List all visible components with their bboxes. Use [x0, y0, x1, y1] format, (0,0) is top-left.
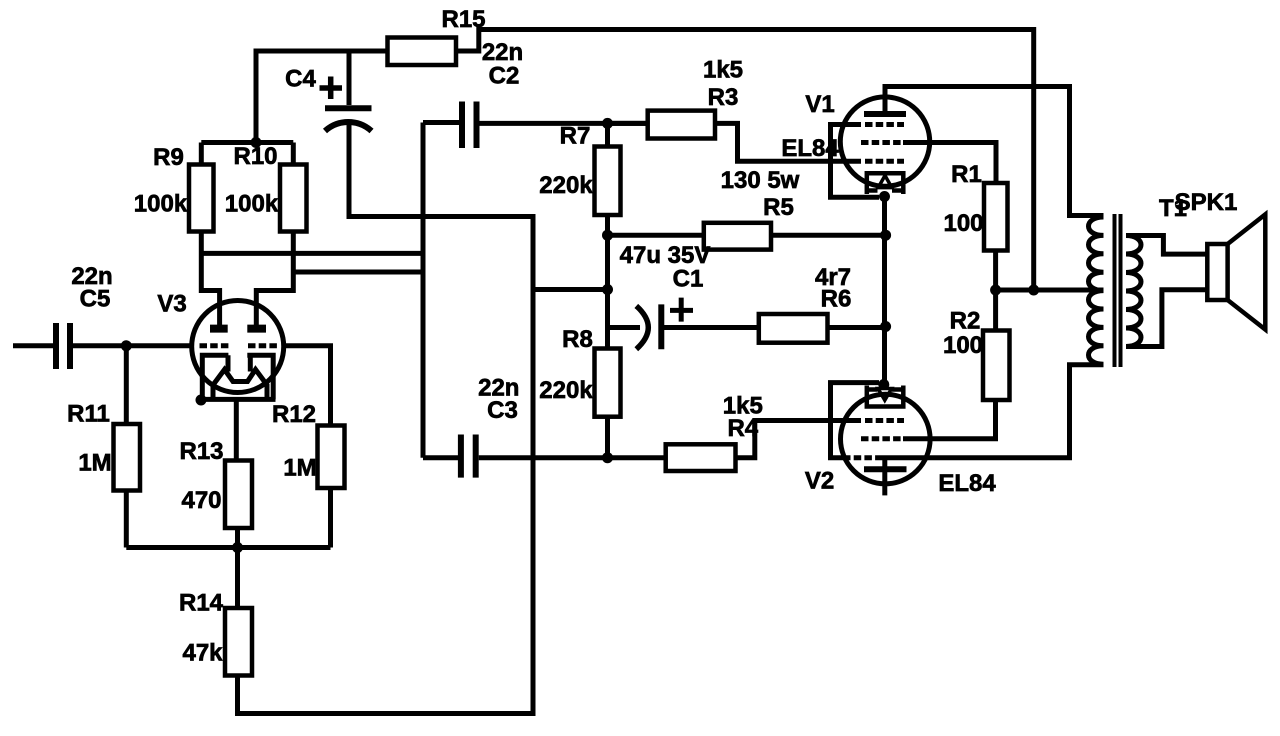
node B+ top wire: [1028, 285, 1039, 296]
tube V1 EL84: [840, 97, 929, 194]
svg-text:470: 470: [181, 487, 221, 514]
V2 anode plate: [864, 466, 907, 472]
V2 g1 dashes: [865, 418, 904, 423]
svg-text:100k: 100k: [134, 191, 188, 218]
transformer T1 primary winding: [1089, 217, 1104, 364]
resistor R7: [595, 147, 621, 216]
resistor R5: [704, 223, 771, 250]
V1 anode plate: [864, 111, 906, 117]
wire R15 left to R9/R10 top rail: [256, 51, 389, 143]
wire R4 left lead from C3 row: [479, 455, 666, 460]
node C2/R3/R7: [602, 118, 613, 129]
wire C3 left lead: [423, 455, 458, 460]
wire V2 g3 row to transformer primary bottom: [878, 365, 1104, 458]
wire V3 anode right from R10: [256, 232, 293, 326]
svg-text:C1: C1: [673, 266, 704, 293]
wire C4 node to R7/R8 rail: [533, 287, 608, 292]
node R1/R2 B+: [990, 285, 1001, 296]
resistor R2: [983, 331, 1010, 401]
svg-text:R6: R6: [821, 286, 852, 313]
wire C5 to V3 grid: [73, 343, 192, 348]
V2 g3 dashes: [843, 455, 878, 460]
wire V2 anode stub: [882, 458, 887, 496]
wire V1 anode to transformer primary top: [885, 87, 1104, 216]
svg-text:220k: 220k: [539, 377, 593, 404]
RESISTOR BOXES: [114, 38, 1010, 676]
wire C2 vertical from rail crossing down to C3: [421, 123, 426, 458]
svg-text:R11: R11: [67, 401, 110, 428]
node R9/R10 top: [251, 137, 262, 148]
wire ground rail under V3: [126, 545, 330, 550]
wire input to C5: [13, 343, 53, 348]
resistor R11: [114, 424, 141, 491]
capacitor C4 plates: [325, 105, 372, 111]
svg-text:C2: C2: [489, 63, 520, 90]
capacitor C1 plates: [658, 304, 664, 349]
resistor R1: [984, 183, 1008, 251]
svg-text:R10: R10: [233, 143, 277, 170]
svg-text:C4: C4: [285, 66, 316, 93]
svg-text:R2: R2: [950, 308, 981, 335]
svg-text:100: 100: [943, 332, 983, 359]
V2 g2 dashes: [861, 436, 901, 441]
wire V1 g2 to R1: [903, 143, 996, 184]
svg-text:220k: 220k: [539, 172, 593, 199]
wire R3 right jog to V1 g1: [715, 123, 861, 161]
resistor R12: [318, 426, 345, 489]
capacitor C4 bottom lead to cathode node: [238, 121, 534, 714]
resistor R13: [225, 461, 252, 529]
capacitor C1 plus sign: [670, 298, 693, 322]
wire C2 right to R3 and R7: [480, 121, 648, 126]
svg-text:EL84: EL84: [781, 135, 839, 162]
wire R11 bottom lead to ground rail: [124, 491, 129, 548]
wire V3 anode rail 2: [293, 270, 425, 275]
wire R8 bottom lead: [605, 417, 610, 458]
V3 left cathode: [202, 355, 228, 399]
svg-text:1k5: 1k5: [703, 57, 743, 84]
resistor R10: [280, 165, 307, 232]
tube V3 double triode: [192, 301, 284, 400]
wire C1 left lead: [608, 325, 641, 330]
svg-text:R14: R14: [179, 590, 224, 617]
svg-text:C5: C5: [80, 286, 111, 313]
V1 cathode: [867, 173, 904, 194]
wire V1 g3 loop to cathode: [831, 125, 880, 198]
node V1 cathode: [879, 191, 890, 202]
wire R12 bottom lead: [328, 488, 333, 548]
wire V3 right grid to R12: [284, 346, 331, 426]
capacitor C4 plus sign: [320, 77, 343, 100]
svg-text:100: 100: [943, 210, 983, 237]
wire secondary bottom to speaker: [1126, 290, 1207, 347]
node R7/R5: [602, 230, 613, 241]
capacitor C3: [461, 435, 476, 478]
svg-text:1M: 1M: [283, 455, 316, 482]
wire R3 left lead: [608, 121, 648, 126]
wire V3 anode left from R9: [201, 232, 219, 326]
V3 heater: [213, 370, 267, 400]
wire R1 bottom lead: [993, 251, 998, 291]
wire V3 anode rail 1: [201, 251, 425, 256]
transformer T1 secondary winding: [1126, 236, 1141, 347]
svg-text:V2: V2: [805, 468, 834, 495]
resistor R4: [666, 444, 736, 471]
svg-text:R12: R12: [272, 401, 316, 428]
CAPACITORS: [56, 102, 661, 478]
svg-text:R3: R3: [708, 84, 739, 111]
wire R5 row from rail to V1 cathode lead: [608, 233, 886, 238]
V3 right anode plate: [247, 325, 266, 333]
V2 cathode: [867, 386, 904, 407]
svg-text:47k: 47k: [182, 640, 223, 667]
wire R9/R10 top rail: [201, 140, 293, 145]
node C4/R8: [602, 284, 613, 295]
wire C1 right lead to R6: [663, 325, 886, 330]
wire R9 top lead: [199, 143, 204, 165]
svg-text:1M: 1M: [78, 450, 111, 477]
capacitor C1 curved plate: [636, 306, 648, 349]
node input/C5: [121, 340, 132, 351]
wire R11 top lead: [124, 346, 129, 424]
svg-text:R8: R8: [562, 326, 593, 353]
V3 bottom bar: [200, 397, 276, 402]
wire V3 heater tap to R13: [234, 399, 239, 460]
node V2 cathode: [878, 379, 889, 390]
V3 left anode plate: [210, 325, 228, 333]
wire R13 bottom lead: [235, 528, 240, 548]
V1 g2 dashes: [861, 140, 901, 145]
svg-text:R4: R4: [727, 415, 758, 442]
svg-text:V1: V1: [805, 91, 834, 118]
svg-text:R9: R9: [153, 144, 184, 171]
node R6/cathode: [880, 321, 891, 332]
svg-text:V3: V3: [157, 291, 186, 318]
V3 right cathode: [247, 355, 273, 399]
node ground rail: [232, 542, 243, 553]
wire V1 cathode down to V2 cathode: [882, 197, 887, 385]
svg-text:R13: R13: [179, 438, 223, 465]
resistor R6: [759, 314, 828, 343]
svg-text:R5: R5: [763, 194, 794, 221]
V3 right grid dashes: [248, 343, 280, 348]
svg-text:130 5w: 130 5w: [721, 167, 800, 194]
svg-text:R15: R15: [441, 6, 485, 33]
svg-text:R7: R7: [560, 123, 591, 150]
capacitor C2: [462, 102, 477, 149]
wire R2 top lead: [993, 290, 998, 331]
resistor R14: [225, 608, 252, 676]
capacitor C5: [56, 323, 70, 369]
V1 g3 dashes: [865, 122, 904, 127]
transformer T1 core: [1115, 214, 1121, 367]
resistor R15: [388, 38, 457, 66]
wire R2 bottom to V2 g2: [903, 400, 996, 439]
wire R7 top lead: [605, 123, 610, 146]
resistor R9: [189, 165, 214, 232]
wire R4 right jog to V2 g1: [736, 421, 862, 458]
node C3/R8/R4: [602, 452, 613, 463]
svg-text:SPK1: SPK1: [1175, 189, 1238, 216]
svg-text:100k: 100k: [225, 191, 279, 218]
svg-text:EL84: EL84: [938, 470, 996, 497]
wire R15 right jog to top rail and down to B+ node: [456, 30, 1034, 291]
svg-text:R1: R1: [951, 161, 982, 188]
wire R10 top lead: [291, 143, 296, 165]
wire R14 top lead: [235, 548, 240, 609]
wire C2 left lead: [423, 120, 459, 125]
wire B+ rail to transformer center tap: [996, 288, 1104, 293]
capacitor C4 curved plate: [325, 122, 372, 131]
wire secondary top to speaker: [1126, 236, 1207, 255]
V1 g1 dashes: [865, 159, 904, 164]
wire R7 bottom lead: [605, 215, 610, 349]
V3 left grid dashes: [200, 343, 229, 348]
resistor R8: [595, 349, 621, 417]
node R5/cathode: [880, 230, 891, 241]
resistor R3: [648, 111, 715, 139]
node V3 cathode corner: [196, 395, 207, 406]
speaker SPK1: [1207, 214, 1265, 329]
wire V2 g3 loop to cathode: [831, 383, 880, 458]
tube V2 EL84: [841, 386, 931, 484]
svg-text:C3: C3: [487, 397, 518, 424]
capacitor C4 top lead: [347, 51, 352, 105]
